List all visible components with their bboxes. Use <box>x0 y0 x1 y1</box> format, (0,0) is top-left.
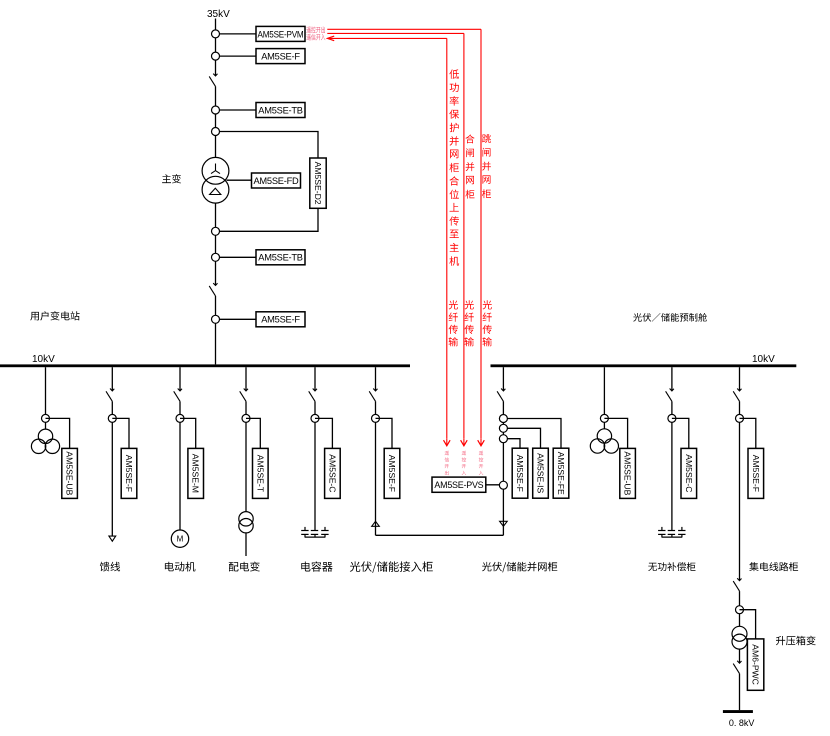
svg-text:AM5SE-D2: AM5SE-D2 <box>313 162 323 205</box>
svg-text:AM5SE-C: AM5SE-C <box>684 454 694 492</box>
svg-text:AM5SE-M: AM5SE-M <box>191 454 201 493</box>
svg-text:AM5SE-IS: AM5SE-IS <box>536 453 546 493</box>
svg-text:0. 8kV: 0. 8kV <box>729 718 755 728</box>
svg-text:AM5SE-TB: AM5SE-TB <box>258 253 303 263</box>
svg-text:AM5SE-PVS: AM5SE-PVS <box>434 480 483 490</box>
svg-text:10kV: 10kV <box>752 354 775 365</box>
svg-text:AM5SE-F: AM5SE-F <box>751 455 761 492</box>
svg-text:AM5SE-T: AM5SE-T <box>255 455 265 493</box>
svg-text:10kV: 10kV <box>32 354 55 365</box>
svg-text:AM5SE-F: AM5SE-F <box>515 455 525 492</box>
svg-text:35kV: 35kV <box>207 9 230 20</box>
svg-text:AM5SE-F: AM5SE-F <box>261 52 300 62</box>
svg-text:AM5SE-FE: AM5SE-FE <box>556 452 566 495</box>
svg-text:AM5SE-UB: AM5SE-UB <box>623 451 633 495</box>
svg-text:AM6-PWC: AM6-PWC <box>751 644 761 685</box>
svg-text:AM5SE-TB: AM5SE-TB <box>258 105 303 115</box>
svg-text:AM5SE-UB: AM5SE-UB <box>65 451 75 495</box>
svg-text:AM5SE-C: AM5SE-C <box>327 454 337 492</box>
svg-text:M: M <box>177 535 184 544</box>
svg-text:AM5SE-F: AM5SE-F <box>124 455 134 492</box>
svg-text:AM5SE-PVM: AM5SE-PVM <box>258 29 304 39</box>
svg-text:AM5SE-FD: AM5SE-FD <box>253 176 299 186</box>
svg-text:AM5SE-F: AM5SE-F <box>387 455 397 492</box>
svg-text:AM5SE-F: AM5SE-F <box>261 315 300 325</box>
